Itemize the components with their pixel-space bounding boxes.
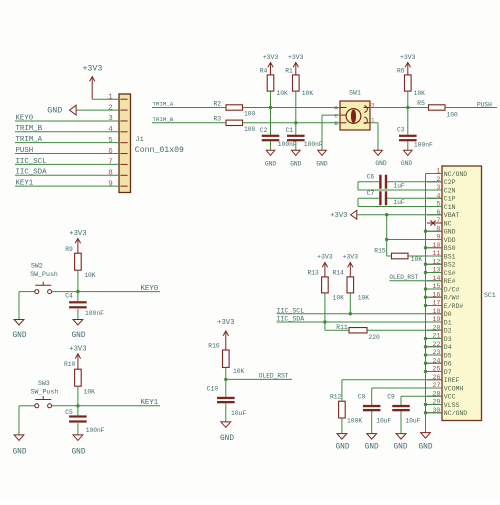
svg-text:D4: D4 xyxy=(444,344,452,351)
svg-text:R5: R5 xyxy=(417,100,425,107)
svg-text:D5: D5 xyxy=(444,352,452,359)
svg-text:100nF: 100nF xyxy=(414,142,433,149)
svg-text:GND: GND xyxy=(265,161,276,168)
svg-text:100nF: 100nF xyxy=(304,141,323,148)
svg-text:IIC_SDA: IIC_SDA xyxy=(16,169,48,177)
svg-text:13: 13 xyxy=(432,267,440,275)
svg-text:C5: C5 xyxy=(65,409,73,416)
svg-text:21: 21 xyxy=(432,333,440,341)
svg-text:C: C xyxy=(334,112,338,119)
svg-text:1: 1 xyxy=(108,93,113,101)
svg-text:26: 26 xyxy=(432,374,440,382)
svg-text:100: 100 xyxy=(244,111,256,118)
svg-text:14: 14 xyxy=(432,275,440,283)
svg-text:TRIM_A: TRIM_A xyxy=(16,136,43,144)
svg-text:27: 27 xyxy=(432,382,440,390)
svg-text:+3V3: +3V3 xyxy=(400,54,416,61)
svg-text:D0: D0 xyxy=(444,311,452,318)
svg-text:Conn_01x09: Conn_01x09 xyxy=(135,146,184,155)
svg-text:A: A xyxy=(334,105,338,112)
svg-text:16: 16 xyxy=(432,291,440,299)
svg-text:24: 24 xyxy=(432,357,440,365)
svg-text:15: 15 xyxy=(432,283,440,291)
svg-text:10K: 10K xyxy=(414,90,426,97)
svg-text:10K: 10K xyxy=(84,272,96,279)
svg-text:100: 100 xyxy=(447,111,459,118)
svg-text:BS1: BS1 xyxy=(444,253,456,260)
svg-text:1: 1 xyxy=(371,117,375,124)
svg-text:+3V3: +3V3 xyxy=(342,253,358,260)
svg-text:1uF: 1uF xyxy=(394,182,405,189)
svg-text:R3: R3 xyxy=(214,116,222,123)
svg-text:R12: R12 xyxy=(330,393,342,400)
svg-text:3: 3 xyxy=(108,115,113,123)
svg-text:+3V3: +3V3 xyxy=(69,230,86,238)
svg-text:100K: 100K xyxy=(347,418,362,425)
svg-text:10uF: 10uF xyxy=(405,418,420,425)
svg-text:GND: GND xyxy=(393,443,407,451)
svg-text:CS#: CS# xyxy=(444,270,456,277)
svg-text:8: 8 xyxy=(436,225,440,233)
svg-text:11: 11 xyxy=(432,250,440,258)
svg-text:C10: C10 xyxy=(207,385,219,392)
svg-text:C2P: C2P xyxy=(444,179,456,186)
svg-text:C4: C4 xyxy=(65,292,73,299)
svg-text:6: 6 xyxy=(436,209,440,217)
svg-text:GND: GND xyxy=(375,160,386,167)
svg-text:GND: GND xyxy=(401,160,412,167)
svg-text:NC: NC xyxy=(444,220,452,227)
svg-text:SW_Push: SW_Push xyxy=(31,389,59,396)
svg-text:R13: R13 xyxy=(308,270,320,277)
svg-text:GND: GND xyxy=(290,161,301,168)
svg-text:100nF: 100nF xyxy=(278,141,297,148)
svg-text:IREF: IREF xyxy=(444,377,460,384)
svg-text:NC/GND: NC/GND xyxy=(444,410,468,417)
svg-text:D1: D1 xyxy=(444,319,452,326)
svg-text:1: 1 xyxy=(436,168,440,176)
svg-text:SW2: SW2 xyxy=(31,262,43,269)
svg-text:12: 12 xyxy=(432,258,440,266)
svg-text:2: 2 xyxy=(108,104,113,112)
svg-text:2: 2 xyxy=(436,176,440,184)
svg-text:GND: GND xyxy=(71,332,85,340)
svg-text:GND: GND xyxy=(12,332,26,340)
svg-text:KEY0: KEY0 xyxy=(16,114,34,122)
svg-text:GND: GND xyxy=(316,161,327,168)
svg-text:C8: C8 xyxy=(358,393,366,400)
svg-text:10K: 10K xyxy=(84,388,96,395)
svg-text:GND: GND xyxy=(47,106,62,115)
svg-text:10uF: 10uF xyxy=(231,410,246,417)
svg-text:R14: R14 xyxy=(333,270,345,277)
svg-text:E/RD#: E/RD# xyxy=(444,303,464,310)
svg-text:R11: R11 xyxy=(336,324,348,331)
svg-text:29: 29 xyxy=(432,399,440,407)
svg-text:28: 28 xyxy=(432,390,440,398)
svg-text:GND: GND xyxy=(335,443,349,451)
svg-text:R10: R10 xyxy=(64,361,76,368)
svg-text:18: 18 xyxy=(432,308,440,316)
svg-text:D/C#: D/C# xyxy=(444,286,460,293)
svg-text:10K: 10K xyxy=(277,90,289,97)
svg-text:KEY1: KEY1 xyxy=(141,399,159,407)
svg-text:1uF: 1uF xyxy=(394,199,405,206)
svg-text:OLED_RST: OLED_RST xyxy=(389,274,418,281)
svg-text:TRIM_B: TRIM_B xyxy=(153,116,174,123)
svg-text:KEY0: KEY0 xyxy=(141,285,159,293)
svg-text:IIC_SCL: IIC_SCL xyxy=(277,307,305,314)
svg-text:C1: C1 xyxy=(286,127,294,134)
svg-text:SW1: SW1 xyxy=(349,90,361,97)
svg-text:10K: 10K xyxy=(411,256,423,263)
svg-text:4: 4 xyxy=(108,126,113,134)
svg-text:10K: 10K xyxy=(333,294,345,301)
svg-text:10uF: 10uF xyxy=(376,418,391,425)
svg-text:25: 25 xyxy=(432,366,440,374)
svg-text:C3: C3 xyxy=(397,126,405,133)
svg-text:19: 19 xyxy=(432,316,440,324)
svg-text:+3V3: +3V3 xyxy=(317,253,333,260)
svg-text:KEY1: KEY1 xyxy=(16,180,34,188)
svg-text:R15: R15 xyxy=(374,247,386,254)
svg-text:100: 100 xyxy=(244,126,256,133)
svg-text:30: 30 xyxy=(432,407,440,415)
svg-text:VCOMH: VCOMH xyxy=(444,385,464,392)
svg-text:C2: C2 xyxy=(260,127,268,134)
svg-text:OLED_RST: OLED_RST xyxy=(259,373,289,380)
svg-text:7: 7 xyxy=(436,217,440,225)
svg-text:VCC: VCC xyxy=(444,394,456,401)
svg-text:4: 4 xyxy=(436,192,440,200)
svg-text:3: 3 xyxy=(436,184,440,192)
svg-text:D2: D2 xyxy=(444,328,452,335)
svg-text:D3: D3 xyxy=(444,336,452,343)
svg-text:6: 6 xyxy=(108,148,113,156)
svg-text:VLSS: VLSS xyxy=(444,402,460,409)
svg-text:+3V3: +3V3 xyxy=(82,65,102,74)
svg-text:+3V3: +3V3 xyxy=(217,319,234,327)
svg-text:GND: GND xyxy=(12,449,26,457)
svg-text:R6: R6 xyxy=(397,68,405,75)
svg-text:23: 23 xyxy=(432,349,440,357)
svg-text:B: B xyxy=(334,120,338,127)
svg-text:R9: R9 xyxy=(65,246,73,253)
svg-text:GND: GND xyxy=(418,443,432,451)
svg-text:5: 5 xyxy=(108,137,113,145)
svg-text:BS2: BS2 xyxy=(444,262,456,269)
svg-text:10K: 10K xyxy=(233,368,245,375)
svg-text:+3V3: +3V3 xyxy=(288,54,304,61)
svg-text:D7: D7 xyxy=(444,369,452,376)
svg-text:SC1: SC1 xyxy=(484,292,496,299)
svg-text:RE#: RE# xyxy=(444,278,456,285)
svg-text:100nF: 100nF xyxy=(85,310,104,317)
svg-text:22: 22 xyxy=(432,341,440,349)
svg-text:9: 9 xyxy=(108,180,113,188)
svg-text:D6: D6 xyxy=(444,361,452,368)
svg-text:20: 20 xyxy=(432,324,440,332)
svg-text:10K: 10K xyxy=(358,294,370,301)
svg-text:R16: R16 xyxy=(208,343,220,350)
svg-text:9: 9 xyxy=(436,234,440,242)
svg-text:100nF: 100nF xyxy=(86,427,105,434)
svg-text:GND: GND xyxy=(220,435,234,443)
svg-text:+3V3: +3V3 xyxy=(69,345,86,353)
svg-text:C6: C6 xyxy=(367,174,375,181)
svg-text:C2N: C2N xyxy=(444,187,456,194)
svg-text:J1: J1 xyxy=(136,136,144,144)
svg-text:+3V3: +3V3 xyxy=(330,212,347,220)
svg-text:TRIM_B: TRIM_B xyxy=(16,125,43,133)
svg-text:BS0: BS0 xyxy=(444,245,456,252)
svg-text:8: 8 xyxy=(108,169,113,177)
svg-text:7: 7 xyxy=(108,159,113,167)
svg-text:PUSH: PUSH xyxy=(477,101,492,108)
svg-text:IIC_SCL: IIC_SCL xyxy=(16,158,47,166)
svg-text:R1: R1 xyxy=(285,68,293,75)
svg-text:NC/GND: NC/GND xyxy=(444,171,468,178)
svg-text:3: 3 xyxy=(371,101,375,108)
svg-text:R4: R4 xyxy=(260,68,268,75)
svg-text:10: 10 xyxy=(432,242,440,250)
svg-text:VDD: VDD xyxy=(444,237,456,244)
svg-text:GND: GND xyxy=(71,449,85,457)
svg-text:IIC_SDA: IIC_SDA xyxy=(277,316,305,323)
svg-text:C9: C9 xyxy=(387,393,395,400)
svg-text:220: 220 xyxy=(369,334,381,341)
svg-text:17: 17 xyxy=(432,300,440,308)
svg-text:VBAT: VBAT xyxy=(444,212,460,219)
svg-text:TRIM_A: TRIM_A xyxy=(153,101,174,108)
svg-text:R/W#: R/W# xyxy=(444,295,460,302)
svg-text:SW3: SW3 xyxy=(38,380,50,387)
svg-text:R2: R2 xyxy=(214,100,222,107)
svg-text:C1P: C1P xyxy=(444,196,456,203)
svg-text:C7: C7 xyxy=(367,190,375,197)
svg-text:PUSH: PUSH xyxy=(16,147,34,155)
svg-text:GND: GND xyxy=(444,229,456,236)
svg-text:GND: GND xyxy=(365,443,379,451)
svg-text:10K: 10K xyxy=(302,90,314,97)
svg-text:5: 5 xyxy=(436,201,440,209)
svg-text:SW_Push: SW_Push xyxy=(30,271,58,278)
svg-text:C1N: C1N xyxy=(444,204,456,211)
svg-text:+3V3: +3V3 xyxy=(263,54,279,61)
